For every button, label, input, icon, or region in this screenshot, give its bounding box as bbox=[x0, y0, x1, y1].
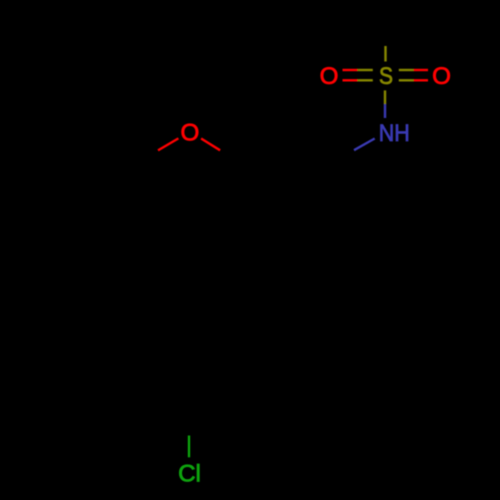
svg-text:O: O bbox=[432, 63, 451, 90]
svg-text:O: O bbox=[180, 119, 199, 146]
svg-text:O: O bbox=[320, 63, 339, 90]
svg-text:NH: NH bbox=[379, 120, 410, 147]
svg-text:Cl: Cl bbox=[178, 460, 201, 487]
svg-text:S: S bbox=[379, 63, 393, 90]
